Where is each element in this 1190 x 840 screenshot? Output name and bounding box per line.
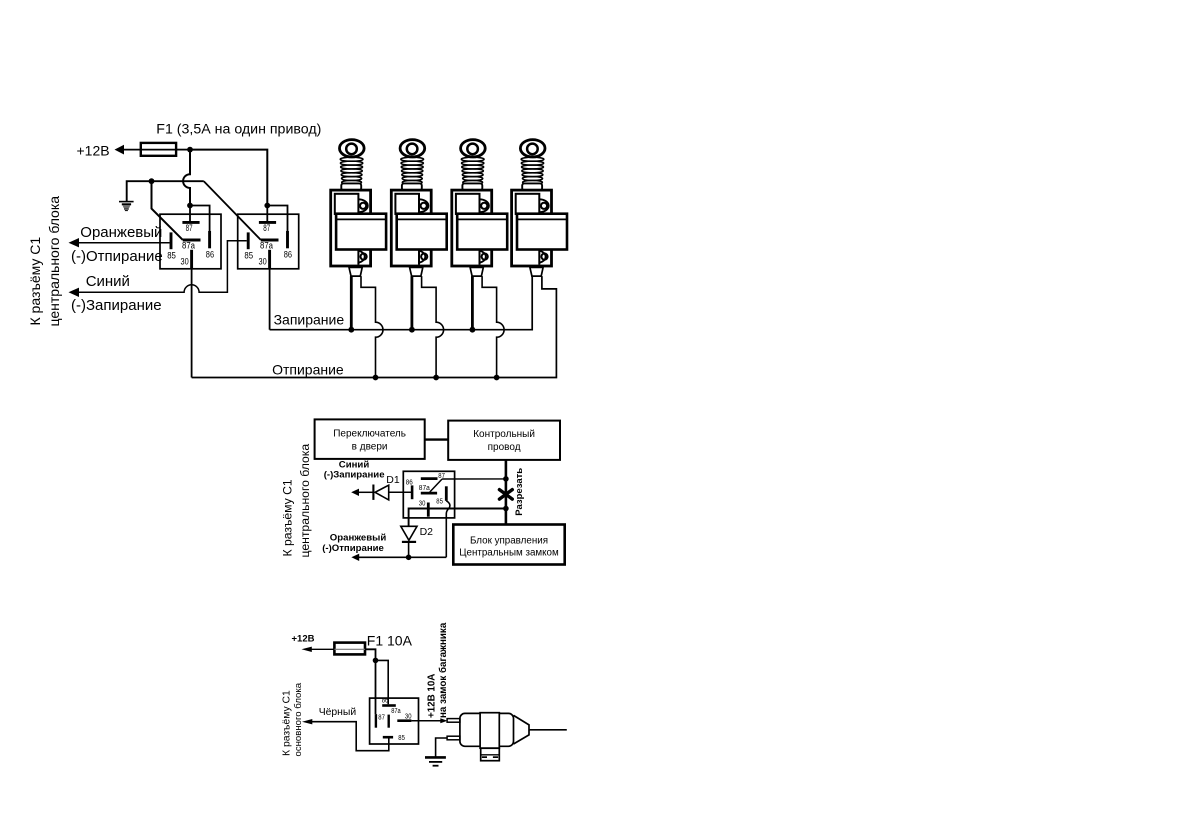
svg-text:К разъёму С1: К разъёму С1 — [27, 237, 43, 326]
solenoid body — [460, 713, 514, 746]
solenoid cone — [514, 715, 530, 744]
arrow blue wire (left) — [69, 288, 80, 297]
wire actuator2 lock lead — [410, 276, 413, 330]
ground symbol — [119, 201, 134, 211]
svg-text:87: 87 — [263, 223, 270, 233]
node actuator3 lock junction — [470, 327, 476, 333]
svg-text:Синий: Синий — [86, 273, 130, 290]
wire relay K3 pin 85 to orange (hop over 30 wire) — [446, 501, 450, 558]
wire feed to pin 87 — [375, 660, 377, 714]
svg-text:+12В: +12В — [77, 143, 110, 159]
wire relay K3 87a to контрольный провод — [442, 478, 506, 480]
svg-text:центрального блока: центрального блока — [298, 444, 312, 558]
svg-text:(-)Отпирание: (-)Отпирание — [322, 543, 384, 554]
wire actuator3 lock lead — [471, 276, 474, 330]
svg-text:Оранжевый: Оранжевый — [80, 224, 162, 241]
svg-text:87a: 87a — [182, 241, 195, 251]
fuse F1 10A — [334, 643, 365, 655]
svg-text:основного блока: основного блока — [293, 682, 304, 756]
arrow into solenoid — [440, 718, 447, 723]
arrow +12V (bottom, left) — [302, 647, 312, 652]
svg-text:85: 85 — [244, 250, 253, 260]
arrow +12V (left) — [115, 145, 125, 155]
wire Чёрный to relay K4 pin 85 — [311, 722, 389, 751]
node junction 30 tap — [503, 506, 509, 512]
relay K2 box — [238, 214, 299, 269]
node actuator1 lock junction — [348, 327, 354, 333]
box Переключатель в двери — [315, 419, 425, 459]
diode D2 — [401, 526, 417, 540]
relay K2 pin 30 wire — [268, 250, 271, 269]
svg-text:85: 85 — [398, 735, 405, 742]
node actuator2 lock junction — [409, 327, 415, 333]
node junction below fuse — [187, 147, 193, 153]
svg-text:Разрезать: Разрезать — [514, 468, 525, 516]
wire fuse to relay K4 feed — [365, 649, 376, 660]
wire actuator2 unlock lead (hop over Запирание) — [422, 276, 444, 377]
ground wire horizontal — [127, 181, 204, 201]
box Контрольный провод — [448, 421, 560, 460]
relay K1 pin 86 jumper wire — [190, 206, 210, 232]
wire arrow to fuse — [123, 149, 141, 151]
wire arrow to D1 — [358, 491, 373, 493]
node junction 87a tap — [503, 476, 509, 482]
svg-text:F1 10А: F1 10А — [367, 633, 413, 649]
diode D1 — [372, 485, 374, 500]
node feed junction — [373, 658, 379, 664]
svg-text:Запирание: Запирание — [274, 311, 345, 327]
wire actuator3 unlock lead (hop over Запирание) — [482, 276, 504, 377]
node ground junction — [149, 178, 155, 184]
svg-text:(-)Запирание: (-)Запирание — [324, 470, 385, 481]
wire relay K2 pin30 to Запирание line — [269, 269, 271, 330]
relay K1 pin 87 contact — [182, 221, 199, 224]
relay K4 pin 87a — [388, 715, 390, 728]
relay K2 pin 86 jumper wire — [267, 206, 287, 232]
wire armature relay K2 (from ground line to 87a) — [204, 181, 261, 240]
node D2 junction — [406, 555, 412, 561]
relay K2 pin 87a contact — [261, 239, 279, 242]
relay K1 pin 87 feed — [187, 203, 193, 209]
wire relay K4 pin 30 to solenoid — [411, 720, 441, 722]
solenoid band — [480, 713, 499, 749]
ground symbol (bottom) — [425, 756, 446, 759]
svg-text:D2: D2 — [420, 526, 434, 538]
svg-text:провод: провод — [488, 442, 521, 453]
svg-text:(-)Отпирание: (-)Отпирание — [71, 248, 163, 265]
svg-text:в двери: в двери — [352, 442, 388, 453]
svg-text:Контрольный: Контрольный — [473, 429, 535, 440]
svg-text:86: 86 — [284, 249, 292, 259]
svg-text:85: 85 — [436, 498, 443, 505]
relay K2 pin 87 contact — [259, 221, 276, 224]
wire fuse junction down to relay K1 (hop over ground line) — [183, 150, 190, 206]
relay K3 pin 87 contact — [421, 477, 438, 480]
actuator 1 (door lock motor) — [331, 140, 386, 277]
wire Запирание bus — [270, 276, 533, 330]
svg-text:30: 30 — [259, 257, 267, 267]
relay K4 pin 86 contact — [382, 704, 396, 707]
relay K3 pin 86 — [411, 485, 414, 499]
svg-text:на замок багажника: на замок багажника — [438, 622, 449, 718]
relay K4 pin 87 — [375, 714, 377, 728]
svg-text:87a: 87a — [419, 485, 430, 492]
svg-text:87a: 87a — [391, 708, 401, 715]
relay K4 pin 85 — [383, 736, 393, 739]
relay K1 box — [160, 214, 221, 269]
svg-text:F1 (3,5А на один привод): F1 (3,5А на один привод) — [156, 121, 321, 137]
node actuator2 unlock junction — [433, 375, 439, 381]
svg-text:86: 86 — [382, 698, 389, 705]
svg-text:Отпирание: Отпирание — [272, 361, 344, 377]
svg-text:К разъёму С1: К разъёму С1 — [281, 690, 292, 756]
wire solenoid to ground — [436, 738, 448, 757]
relay K3 pin 87a contact — [421, 492, 437, 495]
wire blue to relay K2 pin 85 (hop over K1 pin30 wire) — [78, 241, 247, 293]
relay K1 pin 87a contact — [183, 239, 201, 242]
relay K3 pin 30 — [427, 503, 430, 517]
actuator 3 (door lock motor) — [452, 140, 507, 277]
wire +12V bus to relay K2 — [190, 150, 267, 206]
svg-text:(-)Запирание: (-)Запирание — [71, 297, 162, 314]
svg-text:86: 86 — [406, 479, 413, 486]
svg-text:87a: 87a — [260, 241, 273, 251]
relay K2 pin 87 feed — [264, 203, 270, 209]
wire actuator1 lock lead — [350, 276, 353, 330]
svg-text:центрального блока: центрального блока — [46, 196, 62, 327]
solenoid bracket — [481, 748, 500, 761]
relay K4 box — [370, 698, 419, 744]
solenoid lower terminal — [447, 736, 460, 740]
svg-text:Блок управления: Блок управления — [470, 535, 548, 546]
svg-text:30: 30 — [419, 500, 426, 507]
svg-text:87: 87 — [186, 223, 193, 233]
solenoid upper terminal — [447, 719, 460, 723]
solenoid shaft — [529, 729, 567, 731]
relay K1 pin 30 wire — [190, 250, 193, 269]
svg-text:86: 86 — [206, 249, 214, 259]
wire orange bus (arrow to relay K3 85) — [358, 556, 446, 558]
wire Отпирание bus — [192, 276, 557, 377]
wire orange to relay K1 pin 85 — [78, 242, 170, 244]
wire контрольный провод down to блок управления — [505, 460, 508, 525]
svg-text:+12В 10А: +12В 10А — [427, 674, 438, 718]
arrow orange wire (left) — [69, 238, 80, 247]
svg-text:+12В: +12В — [292, 634, 315, 645]
arrow blue (middle, left) — [351, 489, 359, 496]
relay K3 armature diagonal — [430, 479, 442, 492]
actuator 4 (door lock motor) — [512, 140, 567, 277]
svg-text:30: 30 — [181, 257, 189, 267]
wire arrow to fuse F1 10A — [311, 648, 335, 650]
relay K2 pin 85 — [247, 232, 250, 249]
wire fuse to junction — [176, 149, 190, 151]
svg-text:Чёрный: Чёрный — [319, 707, 357, 718]
relay K4 pin 30 — [397, 719, 411, 722]
wire between boxes — [425, 438, 449, 440]
node actuator1 unlock junction — [373, 375, 379, 381]
arrow Чёрный (left) — [302, 719, 312, 724]
svg-text:К разъёму С1: К разъёму С1 — [280, 479, 294, 556]
wire D1 to relay K3 pin 86 — [389, 491, 411, 493]
relay K3 pin 85 — [445, 486, 448, 501]
node actuator3 unlock junction — [494, 375, 500, 381]
arrow orange (middle, left) — [351, 554, 359, 561]
svg-text:Центральным замком: Центральным замком — [459, 548, 559, 559]
fuse F1 — [141, 143, 176, 156]
relay K3 box — [403, 471, 454, 518]
wire relay K3 pin 30 bus — [409, 509, 506, 527]
box Блок управления Центральным замком — [453, 525, 564, 565]
wire actuator1 unlock lead (hop over Запирание) — [361, 276, 383, 377]
wire armature relay K1 (from ground to 87a) — [152, 181, 183, 240]
svg-text:D1: D1 — [386, 474, 400, 486]
relay K1 pin 85 — [170, 232, 173, 249]
relay K2 pin 86 — [286, 231, 289, 248]
wire relay K1 pin30 to Отпирание line — [191, 269, 193, 378]
svg-text:Переключатель: Переключатель — [333, 429, 406, 440]
relay K1 pin 86 — [208, 231, 211, 248]
wire feed to pin 86 — [376, 660, 389, 704]
svg-text:85: 85 — [167, 250, 176, 260]
svg-text:Оранжевый: Оранжевый — [330, 532, 387, 543]
actuator 2 (door lock motor) — [391, 140, 446, 277]
svg-text:87: 87 — [378, 714, 385, 721]
cut mark X (разрезать) — [499, 490, 512, 500]
svg-text:30: 30 — [405, 714, 412, 721]
